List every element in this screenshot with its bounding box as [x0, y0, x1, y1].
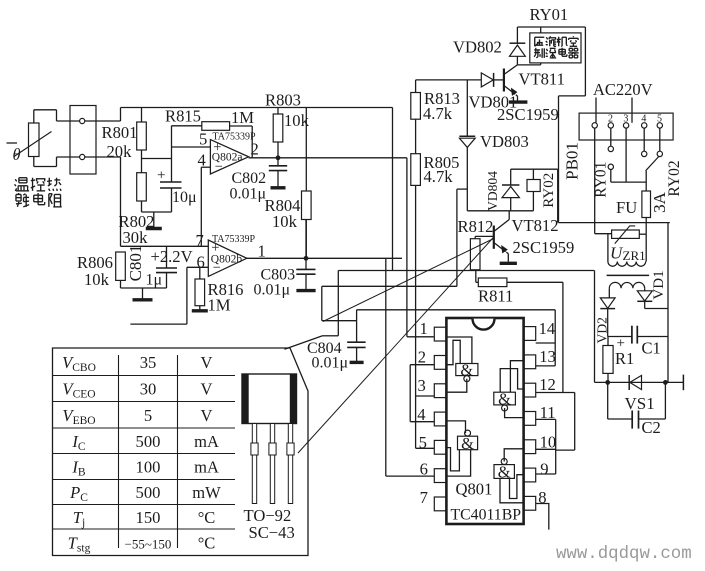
svg-text:1M: 1M	[208, 296, 231, 315]
svg-text:C1: C1	[642, 339, 661, 358]
svg-text:R815: R815	[165, 107, 201, 126]
svg-text:500: 500	[136, 483, 161, 502]
svg-text:VD2: VD2	[594, 317, 609, 343]
svg-text:4: 4	[641, 114, 646, 125]
svg-text:4.7k: 4.7k	[423, 104, 453, 123]
svg-text:R812: R812	[458, 217, 494, 236]
svg-text:5: 5	[657, 114, 662, 125]
svg-text:mA: mA	[194, 432, 219, 451]
svg-text:R811: R811	[478, 287, 513, 306]
svg-text:VS1: VS1	[625, 394, 655, 413]
svg-text:500: 500	[136, 432, 161, 451]
svg-text:7: 7	[196, 231, 204, 250]
svg-text:2SC1959: 2SC1959	[513, 238, 575, 257]
svg-text:13: 13	[539, 347, 556, 366]
svg-text:VD804: VD804	[485, 171, 500, 211]
svg-text:2SC1959: 2SC1959	[497, 105, 559, 124]
svg-text:C801: C801	[126, 245, 145, 282]
svg-text:6: 6	[420, 459, 428, 478]
svg-text:3: 3	[418, 376, 426, 395]
svg-text:R1: R1	[615, 349, 634, 368]
svg-text:RY02: RY02	[541, 173, 557, 208]
svg-text:12: 12	[539, 375, 556, 394]
svg-text:R803: R803	[265, 91, 301, 110]
svg-text:TA75339P: TA75339P	[212, 234, 256, 245]
svg-text:TC4011BP: TC4011BP	[451, 507, 522, 524]
svg-text:VD802: VD802	[453, 38, 502, 57]
svg-text:+: +	[157, 168, 165, 184]
svg-text:1M: 1M	[231, 108, 254, 127]
svg-text:mW: mW	[192, 483, 221, 502]
svg-text:FU: FU	[616, 198, 637, 217]
svg-text:°C: °C	[198, 533, 216, 552]
svg-text:+2.2V: +2.2V	[151, 247, 193, 266]
svg-text:14: 14	[539, 319, 556, 338]
svg-text:Q801: Q801	[456, 480, 493, 499]
svg-text:0.01μ: 0.01μ	[230, 186, 267, 203]
svg-text:2: 2	[251, 140, 259, 159]
svg-text:150: 150	[136, 508, 161, 527]
svg-text:35: 35	[140, 353, 157, 372]
svg-text:VT811: VT811	[519, 69, 565, 88]
svg-text:AC220V: AC220V	[593, 80, 653, 99]
svg-text:5: 5	[199, 130, 207, 149]
svg-text:6: 6	[197, 253, 205, 272]
svg-text:VT812: VT812	[512, 216, 559, 235]
svg-text:2: 2	[418, 348, 426, 367]
svg-text:VD803: VD803	[480, 132, 529, 151]
svg-text:3A: 3A	[650, 191, 669, 213]
svg-text:1: 1	[420, 319, 428, 338]
svg-text:ZR1: ZR1	[623, 248, 646, 263]
svg-text:9: 9	[540, 459, 548, 478]
svg-text:RY02: RY02	[666, 160, 683, 196]
svg-text:mA: mA	[194, 458, 219, 477]
svg-text:5: 5	[419, 433, 427, 452]
svg-text:Q802b: Q802b	[211, 254, 243, 266]
svg-text:5: 5	[144, 406, 152, 425]
svg-text:10k: 10k	[272, 212, 298, 231]
svg-text:0.01μ: 0.01μ	[254, 282, 291, 299]
svg-text:2: 2	[608, 114, 613, 125]
svg-text:R801: R801	[102, 123, 138, 142]
svg-text:www.dqdqw.com: www.dqdqw.com	[556, 545, 692, 564]
svg-text:SC−43: SC−43	[249, 523, 295, 542]
svg-text:4: 4	[417, 405, 426, 424]
svg-text:7: 7	[420, 488, 428, 507]
svg-text:3: 3	[623, 114, 628, 125]
svg-text:4.7k: 4.7k	[424, 167, 454, 186]
svg-text:C2: C2	[642, 418, 661, 437]
svg-text:PB01: PB01	[562, 142, 581, 180]
svg-text:V: V	[201, 380, 213, 399]
svg-text:100: 100	[136, 458, 161, 477]
svg-text:0.01μ: 0.01μ	[312, 355, 349, 372]
svg-text:TA75339P: TA75339P	[213, 132, 257, 143]
svg-text:V: V	[201, 353, 213, 372]
svg-text:30: 30	[140, 380, 157, 399]
svg-text:RY01: RY01	[530, 5, 569, 24]
svg-text:C802: C802	[232, 170, 267, 187]
svg-text:&: &	[461, 434, 474, 453]
svg-text:1μ: 1μ	[146, 272, 163, 289]
svg-text:VD1: VD1	[651, 270, 667, 299]
svg-text:−55~150: −55~150	[125, 536, 172, 551]
svg-text:°C: °C	[198, 508, 216, 527]
svg-text:θ: θ	[13, 145, 21, 164]
svg-text:V: V	[201, 406, 213, 425]
svg-text:30k: 30k	[123, 228, 149, 247]
svg-text:10k: 10k	[84, 270, 110, 289]
svg-text:4: 4	[198, 151, 207, 170]
svg-text:Q802a: Q802a	[212, 151, 243, 163]
svg-text:10μ: 10μ	[172, 189, 197, 206]
svg-text:20k: 20k	[107, 142, 133, 161]
